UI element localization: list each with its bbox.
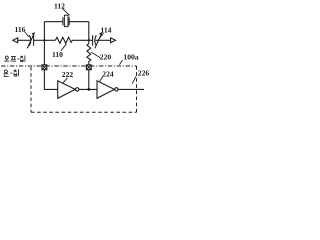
capacitor C116 (variable, left) xyxy=(18,35,45,46)
bond pad 220 (left) xyxy=(42,65,47,70)
label 100a xyxy=(123,52,138,61)
svg-text:100a: 100a xyxy=(123,52,138,61)
leader line for label 114 xyxy=(99,33,104,38)
label 226 xyxy=(138,69,150,78)
leader line for label 116 xyxy=(25,32,29,37)
leader line for label 226 xyxy=(132,76,136,83)
resistor R110 xyxy=(55,37,72,43)
on-chip region dashed box (left side) xyxy=(30,67,32,112)
leader line for label 110 xyxy=(61,44,66,51)
terminal arrowhead (right, open) xyxy=(111,38,116,43)
leader line for label 224 xyxy=(99,77,102,83)
wire: top branch right segment xyxy=(69,21,89,23)
korean text "off-chip" (drawn glyphs) xyxy=(4,55,25,61)
chip boundary dash-dot line (off-chip / on-chip) xyxy=(1,65,137,67)
leader line for label 222 xyxy=(63,78,67,83)
label 114 xyxy=(101,26,112,35)
inverter U224 xyxy=(97,81,118,99)
capacitor C114 (variable, right) xyxy=(89,35,111,46)
label 220 xyxy=(100,53,112,62)
crystal X112 (rectangle between plates) xyxy=(63,15,69,26)
variable arrow of C114 xyxy=(95,32,102,48)
on-chip region dashed box (bottom side) xyxy=(31,111,137,113)
wire: top branch left segment xyxy=(44,21,62,23)
leader line for label 220 xyxy=(91,52,100,58)
svg-text:110: 110 xyxy=(52,50,63,59)
label 224 xyxy=(102,70,114,79)
label 116 xyxy=(15,25,26,34)
svg-text:224: 224 xyxy=(102,70,114,79)
leader line for label 100a xyxy=(119,60,122,65)
label 112 xyxy=(54,1,65,10)
resistor (series, on right vertical wire) xyxy=(87,44,91,62)
wire: right vertical resistor to pad xyxy=(88,61,90,65)
label 222 xyxy=(62,70,74,79)
junction node (left, middle branch) xyxy=(43,39,45,41)
svg-text:222: 222 xyxy=(62,70,74,79)
wire: inverter 222 output to inverter 224 input xyxy=(79,88,97,90)
junction node (right, middle branch) xyxy=(88,39,90,41)
wire: output 226 xyxy=(118,88,144,90)
korean text "on-chip" (drawn glyphs) xyxy=(4,69,19,76)
wire: middle branch left of resistor 110 xyxy=(44,39,55,41)
wire: right vertical below pad to junction xyxy=(88,70,90,90)
leader line for label 112 xyxy=(63,9,70,16)
wire: right vertical upper segment xyxy=(88,22,90,44)
svg-text:226: 226 xyxy=(138,69,150,78)
wire: left vertical (node X1) xyxy=(43,22,45,65)
svg-text:112: 112 xyxy=(54,1,65,10)
terminal arrowhead (left, open) xyxy=(13,38,18,43)
svg-text:114: 114 xyxy=(101,26,112,35)
junction node (between inverters) xyxy=(87,88,90,91)
wire: middle branch right of resistor 110 xyxy=(72,39,88,41)
bond pad 220 (right) xyxy=(86,65,91,70)
label 110 xyxy=(52,50,63,59)
svg-text:116: 116 xyxy=(15,25,26,34)
wire: left vertical below pad to inverter input xyxy=(44,70,57,90)
on-chip region dashed box (right side) xyxy=(136,66,138,112)
inverter U222 xyxy=(58,81,79,99)
variable arrow of C116 xyxy=(27,32,34,48)
svg-text:220: 220 xyxy=(100,53,112,62)
